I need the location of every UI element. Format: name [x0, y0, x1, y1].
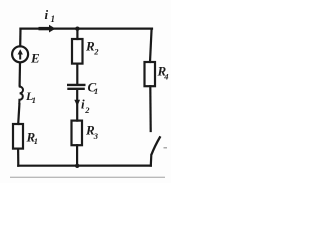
svg-text:1: 1	[51, 14, 56, 24]
resistor R2	[72, 39, 83, 64]
svg-text:E: E	[30, 51, 40, 66]
resistor R4	[145, 62, 156, 86]
wire below resistor R1	[17, 149, 19, 166]
wire R4 to switch contact	[149, 86, 152, 131]
wire middle branch top (node to R2)	[76, 29, 78, 39]
current arrow i2 on middle branch	[74, 100, 80, 106]
svg-text:4: 4	[163, 72, 168, 82]
svg-text:1: 1	[34, 136, 38, 146]
resistor R3	[72, 121, 83, 146]
wire between inductor L1 and resistor R1	[18, 104, 19, 124]
wire top horizontal	[21, 28, 153, 30]
svg-text:1: 1	[94, 86, 98, 96]
svg-text:3: 3	[93, 131, 99, 141]
wire left vertical upper	[19, 29, 21, 47]
wire between source E and inductor L1	[19, 63, 22, 86]
scan shadow line at bottom	[10, 176, 165, 178]
svg-text:2: 2	[84, 105, 90, 115]
node A (top junction)	[75, 27, 79, 31]
wire below R3	[76, 145, 78, 166]
wire R2 to capacitor C1	[76, 64, 78, 84]
source E internal arrow	[18, 49, 23, 59]
svg-text:1: 1	[32, 95, 36, 105]
capacitor C1	[67, 85, 86, 89]
wire capacitor C1 to R3 (with i2 arrow)	[76, 90, 78, 121]
wire right vertical upper	[150, 29, 152, 62]
switch blade	[152, 136, 161, 154]
wire switch to bottom corner	[150, 155, 153, 166]
resistor R1	[13, 124, 23, 149]
source E circle	[12, 46, 28, 62]
switch contact speck	[164, 147, 168, 149]
node B (bottom junction)	[75, 164, 79, 168]
inductor L1	[19, 85, 23, 104]
wire bottom horizontal	[18, 165, 151, 167]
current arrow i1 on top wire	[39, 25, 56, 33]
svg-text:2: 2	[93, 47, 99, 57]
svg-text:i: i	[45, 7, 49, 22]
